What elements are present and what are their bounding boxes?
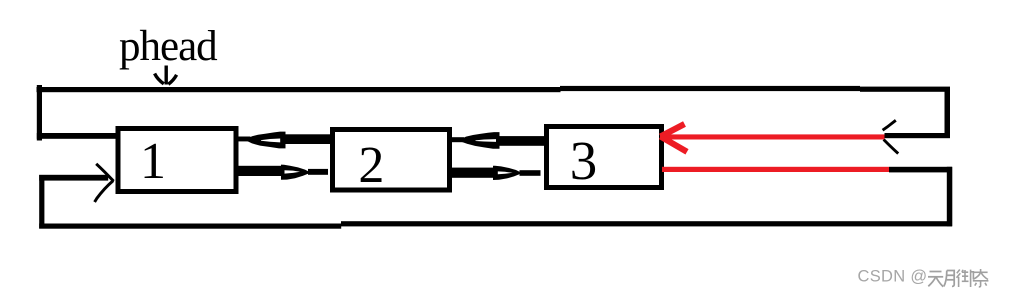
red line: lower (from node 3 right side)	[662, 167, 889, 172]
phead down-arrow	[155, 66, 177, 85]
wire: lower-right horizontal (black)	[889, 167, 952, 173]
arrow: node2 prev -> node1 (upper, points left)	[238, 132, 333, 149]
wire: upper-left horizontal into node 1	[37, 133, 118, 139]
node box 3	[547, 127, 662, 188]
node box 1	[118, 129, 236, 192]
wire: lower-left horizontal toward node 1	[39, 175, 108, 181]
watermark glyph yue	[944, 271, 954, 287]
watermark glyph yu	[957, 270, 974, 288]
watermark glyph nai	[973, 269, 989, 287]
arrow: node1 next -> node2 (lower, points right)	[236, 165, 328, 180]
wire: bottom horizontal line right segment	[341, 221, 952, 226]
arrow: node3 prev -> node2 (upper, points left)	[452, 132, 546, 149]
wire: top horizontal line	[37, 87, 561, 92]
svg-text:3: 3	[570, 130, 598, 191]
svg-text:1: 1	[140, 133, 166, 190]
wire: bottom horizontal line left segment	[39, 224, 341, 229]
wire: top-left vertical	[37, 85, 42, 141]
wire: lower-left vertical	[39, 175, 44, 229]
red arrow: upper (points left into node 3)	[660, 124, 885, 152]
wire: bottom-right vertical	[947, 167, 953, 227]
wire: top-right vertical	[945, 87, 951, 138]
watermark glyph tian	[928, 272, 943, 287]
svg-text:2: 2	[358, 137, 384, 194]
svg-text:phead: phead	[119, 23, 217, 70]
wire: top-right short horizontal (black)	[885, 133, 951, 138]
hand-drawn arrowhead into node 1 left side	[95, 164, 114, 202]
svg-text:CSDN @: CSDN @	[858, 268, 928, 286]
hand-drawn arrowhead at end of top-right wire	[883, 120, 899, 153]
node box 2	[333, 130, 450, 191]
arrow: node2 next -> node3 (lower, points right)	[450, 166, 541, 180]
